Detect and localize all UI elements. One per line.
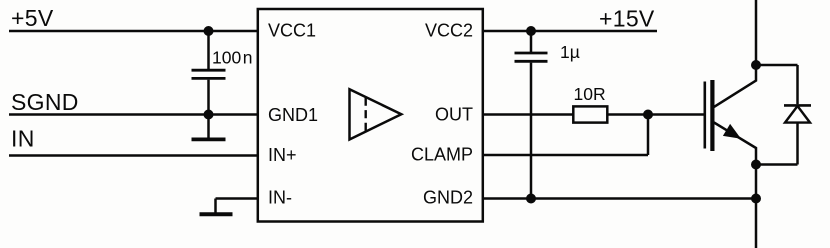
svg-text:+5V: +5V <box>11 5 54 31</box>
svg-text:VCC2: VCC2 <box>425 21 473 41</box>
wire CLAMP pin to OUT node <box>483 115 648 156</box>
capacitor C2 1µ <box>515 31 548 199</box>
diode D1 freewheeling <box>784 105 811 164</box>
resistor R1 10R <box>573 106 607 122</box>
wire emitter node to GND2 rail <box>755 165 758 199</box>
capacitor C1 100n <box>192 31 226 115</box>
wire +5V rail <box>9 30 258 33</box>
op-amp buffer triangle symbol inside U1 <box>350 89 402 139</box>
transistor Q1 IGBT <box>705 65 756 165</box>
node +5V / C1 junction <box>204 26 214 36</box>
svg-text:GND1: GND1 <box>268 105 318 125</box>
node collector junction <box>751 60 761 70</box>
ground symbol at IN- <box>200 212 233 216</box>
svg-text:GND2: GND2 <box>423 188 473 208</box>
node GND2 / C2 junction <box>526 194 536 204</box>
wire IN rail <box>9 154 258 157</box>
wire GND2 rail <box>483 197 756 200</box>
wire dashed isolation line inside buffer <box>365 98 367 133</box>
svg-text:100n: 100n <box>212 48 252 68</box>
svg-text:IN+: IN+ <box>268 145 297 165</box>
svg-text:VCC1: VCC1 <box>268 21 316 41</box>
wire VCC2 to +15V rail <box>483 30 657 33</box>
ground signal-ground symbol below SGND node <box>192 115 226 140</box>
svg-text:1µ: 1µ <box>560 42 580 62</box>
svg-text:OUT: OUT <box>435 105 473 125</box>
svg-text:IN-: IN- <box>268 188 292 208</box>
svg-text:+15V: +15V <box>599 6 655 32</box>
svg-text:IN: IN <box>11 126 35 152</box>
wire diode anode to emitter node <box>756 163 798 166</box>
svg-text:SGND: SGND <box>11 89 79 115</box>
wire collector rail from top edge <box>755 0 758 65</box>
node OUT / CLAMP junction <box>643 110 653 120</box>
svg-text:10R: 10R <box>574 84 606 104</box>
node GND2 right junction <box>751 194 761 204</box>
op-amp U1 driver IC body <box>258 9 483 222</box>
node VCC2 / C2 junction <box>526 26 536 36</box>
wire SGND rail <box>9 113 258 116</box>
svg-text:CLAMP: CLAMP <box>411 145 473 165</box>
wire resistor to IGBT gate <box>607 113 703 116</box>
wire GND2 node to bottom edge <box>755 199 758 248</box>
wire IN- pin to ground <box>216 199 258 213</box>
node emitter junction <box>751 160 761 170</box>
wire OUT pin to resistor <box>483 113 574 116</box>
node SGND / C1 / ground junction <box>204 110 214 120</box>
wire collector node to diode cathode <box>756 65 798 104</box>
